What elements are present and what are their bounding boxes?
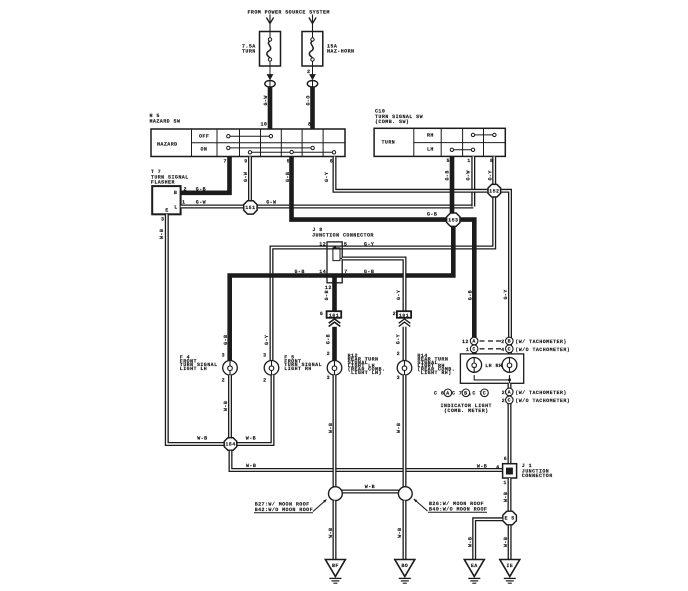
svg-text:6: 6 xyxy=(320,311,323,317)
F5 pin 2 xyxy=(263,377,266,383)
svg-text:LIGHT RH: LIGHT RH xyxy=(284,366,311,372)
meter internal ground wire xyxy=(474,375,511,383)
wire B26 splice to ground BO (W-B) xyxy=(397,501,404,560)
wire B27 splice to ground BF (W-B) xyxy=(328,501,334,560)
wire 184 to F5 ground (W-B) xyxy=(237,375,273,444)
svg-text:2: 2 xyxy=(502,398,505,404)
wire label G-B at front turn LH xyxy=(223,335,229,345)
svg-text:(W/ TACHOMETER): (W/ TACHOMETER) xyxy=(515,339,566,345)
turn SW pin 1 xyxy=(467,158,470,164)
wire flasher E to junction 184 (W-B) xyxy=(159,214,224,444)
hazard SW pin 6 xyxy=(330,159,333,165)
hazard SW pin 10 xyxy=(261,122,268,128)
svg-text:2: 2 xyxy=(327,351,330,357)
svg-text:7: 7 xyxy=(344,269,347,275)
wire label W-B left of 184 xyxy=(197,436,207,442)
svg-text:(COMB. METER): (COMB. METER) xyxy=(444,408,489,414)
junction 184 xyxy=(224,438,237,451)
svg-text:C: C xyxy=(483,390,486,396)
label w/o tachometer bottom xyxy=(515,398,570,404)
power feed arrow to fuse HAZ-HORN xyxy=(309,15,316,32)
svg-text:3: 3 xyxy=(397,375,400,381)
svg-text:RH: RH xyxy=(427,132,434,138)
junction connector J1 xyxy=(503,463,553,479)
svg-text:W-B: W-B xyxy=(397,528,403,538)
svg-text:B: B xyxy=(174,190,177,196)
connector arrows under 101 LH xyxy=(329,319,341,327)
wire fuse HAZ-HORN to hazard SW pin 8 (G-O) xyxy=(309,66,316,80)
svg-text:FLASHER: FLASHER xyxy=(151,179,175,185)
wire turn SW pin5 to junction 153 (G-B) xyxy=(445,156,453,213)
wire junction 153 to J8 and front turn LH (G-B) xyxy=(230,227,454,361)
turn SW pin 8 xyxy=(490,158,493,164)
svg-text:LIGHT RH): LIGHT RH) xyxy=(421,370,452,376)
svg-text:A: A xyxy=(508,390,511,396)
svg-text:G-O: G-O xyxy=(306,95,312,105)
pin 2 of fuse HAZ-HORN xyxy=(307,69,310,75)
svg-text:G-W: G-W xyxy=(266,200,276,206)
svg-text:BF: BF xyxy=(332,563,339,569)
net label FROM POWER SOURCE SYSTEM xyxy=(248,9,330,15)
meter pin 1 (w/o tach) xyxy=(466,347,469,353)
svg-text:HAZARD: HAZARD xyxy=(157,142,178,148)
svg-text:TURN: TURN xyxy=(382,140,396,146)
ground EA xyxy=(464,560,484,584)
svg-text:2: 2 xyxy=(307,69,310,75)
meter pin 2 (w/ tach) xyxy=(501,339,504,345)
svg-text:G-W: G-W xyxy=(196,200,206,206)
J8 pin 14 xyxy=(319,269,326,275)
svg-text:W-B: W-B xyxy=(159,229,165,239)
label w/o tachometer top xyxy=(515,347,570,353)
wire hazard pin9 to junction 151 (G-W) xyxy=(243,157,250,202)
wire label G-B left of J8 xyxy=(295,269,305,275)
flasher T7 box xyxy=(152,186,180,214)
meter pin circle C ground xyxy=(506,396,514,404)
dashed link w/ tach xyxy=(480,340,502,342)
svg-text:EA: EA xyxy=(471,563,478,569)
svg-text:G-B: G-B xyxy=(445,170,451,180)
wire label G-B left of junction 153 xyxy=(427,212,437,218)
J1 pin 4 xyxy=(496,464,499,470)
meter connector codes C6A C7B C7C xyxy=(434,389,488,397)
label w/ tachometer top xyxy=(515,339,566,345)
svg-text:2: 2 xyxy=(397,351,400,357)
svg-text:G-Y: G-Y xyxy=(324,172,330,182)
svg-text:G-B: G-B xyxy=(364,269,374,275)
svg-text:G-B: G-B xyxy=(223,335,229,345)
svg-text:W-B: W-B xyxy=(246,463,256,469)
svg-text:G-Y: G-Y xyxy=(364,241,374,247)
wire label G-Y at front turn RH xyxy=(264,335,270,345)
svg-text:14: 14 xyxy=(319,269,326,275)
svg-text:B42:W/O MOON ROOF: B42:W/O MOON ROOF xyxy=(255,507,313,513)
svg-text:G-B: G-B xyxy=(196,187,206,193)
svg-text:G-W: G-W xyxy=(466,170,472,180)
F5 pin 3 xyxy=(263,353,266,359)
flasher pin 3 label xyxy=(161,217,164,223)
svg-text:3: 3 xyxy=(327,375,330,381)
svg-text:BO: BO xyxy=(401,563,408,569)
hazard SW pin 9 xyxy=(244,159,247,165)
flasher pin 2 label xyxy=(184,187,187,193)
svg-text:2: 2 xyxy=(263,377,266,383)
svg-text:151: 151 xyxy=(245,205,255,211)
svg-text:A: A xyxy=(446,390,449,396)
wire J8 pin6 to rear turn RH (G-Y) xyxy=(342,259,404,312)
svg-text:101: 101 xyxy=(399,313,409,319)
svg-text:CONNECTOR: CONNECTOR xyxy=(522,473,553,479)
svg-text:JUNCTION CONNECTOR: JUNCTION CONNECTOR xyxy=(312,232,374,238)
svg-text:B: B xyxy=(464,390,467,396)
wire hazard pin5 to junction 153 (G-B) xyxy=(285,157,446,220)
meter pin 12 (w/ tach) xyxy=(462,339,469,345)
svg-text:G-B: G-B xyxy=(467,290,473,300)
svg-text:1: 1 xyxy=(466,347,469,353)
rear turn signal light RH R14 xyxy=(397,353,455,376)
svg-text:C: C xyxy=(508,398,511,404)
connector arrows under 101 RH xyxy=(399,319,411,327)
svg-text:(W/O TACHOMETER): (W/O TACHOMETER) xyxy=(515,347,570,353)
wire E5 to ground IE (W-B) xyxy=(503,525,510,559)
svg-text:OFF: OFF xyxy=(199,133,209,139)
svg-text:ON: ON xyxy=(201,147,208,153)
svg-text:(COMB. SW): (COMB. SW) xyxy=(375,119,409,125)
meter pin circle A left xyxy=(470,337,478,345)
dashed link w/o tach xyxy=(480,348,502,350)
svg-text:5: 5 xyxy=(344,241,347,247)
J8 pin 12 top xyxy=(319,241,326,247)
J1 pin 6 top xyxy=(504,456,507,462)
turn signal flasher T7 label xyxy=(151,169,189,185)
svg-text:E: E xyxy=(165,208,168,214)
svg-text:W-B: W-B xyxy=(477,464,487,470)
svg-text:L: L xyxy=(174,205,177,211)
svg-text:12: 12 xyxy=(462,339,469,345)
svg-text:G-B: G-B xyxy=(324,290,330,300)
meter pin 4 (w/o tach) xyxy=(501,347,504,353)
wire F4 ground to 184 (W-B) xyxy=(223,375,230,438)
connector oval on TURN feed xyxy=(265,81,275,88)
svg-text:HAZARD SW: HAZARD SW xyxy=(150,118,181,124)
svg-text:(W/O TACHOMETER): (W/O TACHOMETER) xyxy=(515,398,570,404)
wire fuse TURN to hazard SW pin 10 (G-W) xyxy=(267,66,274,80)
svg-text:3: 3 xyxy=(263,353,266,359)
wire rear turn RH ground (W-B) xyxy=(396,375,404,487)
svg-text:TURN: TURN xyxy=(242,48,256,54)
svg-text:W-B: W-B xyxy=(503,537,509,547)
meter pin circle C right xyxy=(506,345,514,353)
svg-text:6: 6 xyxy=(504,456,507,462)
wire turn SW pin8 to junction 152 (G-Y) xyxy=(488,156,495,184)
R12 pin 2 xyxy=(327,351,330,357)
label indicator light xyxy=(441,403,492,414)
hazard SW pin 7 xyxy=(224,159,227,165)
svg-text:W-B: W-B xyxy=(328,423,334,433)
svg-text:W-B: W-B xyxy=(396,423,402,433)
meter ground pin 2 (w/o tach) xyxy=(502,398,505,404)
wire label W-B right of 184 xyxy=(246,436,256,442)
wire junction 152 to meter RH indicator (G-Y) xyxy=(501,191,510,354)
wire junction 153 to meter LH indicator (G-B) xyxy=(460,220,474,354)
svg-text:C: C xyxy=(472,346,475,352)
wire 101 to rear turn LH bulb (G-B) xyxy=(326,327,335,361)
label w/ tachometer bottom xyxy=(515,390,566,396)
svg-text:G-Y: G-Y xyxy=(503,289,509,299)
flasher pin 1 label xyxy=(182,200,185,206)
svg-text:2: 2 xyxy=(502,390,505,396)
R12 pin 3 xyxy=(327,375,330,381)
wire flasher L to turn SW pin1 (G-W) xyxy=(181,156,474,206)
svg-text:8: 8 xyxy=(308,122,311,128)
ground BF xyxy=(325,560,345,584)
wire hazard pin7 to flasher B (G-B) xyxy=(181,157,230,193)
svg-text:A: A xyxy=(472,339,475,345)
junction 152 xyxy=(488,184,501,197)
svg-text:B40:W/O MOON ROOF: B40:W/O MOON ROOF xyxy=(429,506,487,512)
svg-text:W-B: W-B xyxy=(365,484,375,490)
ground IE xyxy=(500,560,520,584)
connector oval on HAZ-HORN feed xyxy=(307,81,317,88)
wire 184 to J1 pin 4 (W-B) xyxy=(231,451,503,470)
callout B26 moon roof xyxy=(414,499,488,512)
svg-text:G-W: G-W xyxy=(243,172,249,182)
svg-text:3: 3 xyxy=(161,217,164,223)
svg-text:2: 2 xyxy=(222,377,225,383)
R14 pin 3 xyxy=(397,375,400,381)
meter pin circle A ground xyxy=(506,388,514,396)
svg-text:101: 101 xyxy=(329,313,339,319)
turn indicator bulb LH xyxy=(467,358,482,373)
wire label G-B right of J8 xyxy=(364,269,374,275)
wire J1 to splice E5 (W-B) xyxy=(503,478,510,511)
turn indicator bulb RH xyxy=(502,358,517,373)
svg-text:5: 5 xyxy=(447,158,450,164)
J8 pin 5 xyxy=(344,241,347,247)
meter pin circle C left xyxy=(470,345,478,353)
J8 pin 7 xyxy=(344,269,347,275)
svg-text:C 7: C 7 xyxy=(452,391,462,397)
wire 101 to rear turn RH bulb (G-Y) xyxy=(396,327,405,361)
svg-text:G-B: G-B xyxy=(326,334,332,344)
svg-text:W-B: W-B xyxy=(246,436,256,442)
connector 101 (rear RH feed) pin 2 xyxy=(393,311,412,319)
wire label G-W at turn SW pin1 xyxy=(466,170,472,180)
svg-text:4: 4 xyxy=(496,464,499,470)
svg-text:152: 152 xyxy=(489,188,499,194)
wire TURN feed vertical xyxy=(263,87,270,129)
svg-text:7: 7 xyxy=(224,159,227,165)
svg-text:1: 1 xyxy=(467,158,470,164)
svg-text:W-B: W-B xyxy=(328,528,334,538)
front turn signal light LH F4 xyxy=(180,355,238,376)
svg-text:C 6: C 6 xyxy=(434,391,444,397)
svg-text:2: 2 xyxy=(501,339,504,345)
svg-text:LH RH: LH RH xyxy=(485,363,502,369)
fuse 15A HAZ-HORN xyxy=(302,32,354,67)
front turn signal light RH F5 xyxy=(264,355,322,376)
hazard SW pin 5 xyxy=(287,159,290,165)
J1 pin 1 bottom xyxy=(503,480,506,486)
svg-text:C: C xyxy=(508,346,511,352)
svg-text:E 5: E 5 xyxy=(504,516,514,522)
rear turn signal light LH R12 xyxy=(327,353,385,376)
svg-text:G-Y: G-Y xyxy=(488,170,494,180)
svg-text:LIGHT LH: LIGHT LH xyxy=(180,366,207,372)
svg-text:153: 153 xyxy=(448,217,458,223)
wire rear turn LH ground (W-B) xyxy=(328,375,334,487)
F4 pin 3 xyxy=(222,353,225,359)
svg-text:(W/ TACHOMETER): (W/ TACHOMETER) xyxy=(515,390,566,396)
label LH RH xyxy=(485,363,502,369)
svg-text:9: 9 xyxy=(244,159,247,165)
svg-text:4: 4 xyxy=(501,347,504,353)
wire splice bridge (W-B) xyxy=(342,484,399,492)
callout B27 moon roof xyxy=(254,500,327,513)
svg-text:12: 12 xyxy=(319,241,326,247)
svg-text:G-Y: G-Y xyxy=(264,335,270,345)
ground BO xyxy=(395,560,415,584)
meter pin circle B right xyxy=(506,337,514,345)
combination meter box xyxy=(460,354,523,383)
svg-text:W-B: W-B xyxy=(197,436,207,442)
svg-text:10: 10 xyxy=(261,122,268,128)
wire J8 pin12 to connector 101 (G-B) xyxy=(324,276,335,312)
wire hazard pin6 to junction 152 (G-Y) xyxy=(324,157,488,191)
svg-text:184: 184 xyxy=(225,442,235,448)
wire label G-Y at J8 xyxy=(364,241,374,247)
svg-text:G-B: G-B xyxy=(295,269,305,275)
svg-text:G-Y: G-Y xyxy=(396,290,402,300)
svg-text:G-B: G-B xyxy=(427,212,437,218)
svg-text:W-B: W-B xyxy=(468,537,474,547)
svg-text:LH: LH xyxy=(427,147,434,153)
svg-text:G-B: G-B xyxy=(285,172,291,182)
wire junction 152 to J8 and front turn RH (G-Y) xyxy=(272,197,495,361)
junction 153 xyxy=(447,213,460,226)
hazard SW pin 8 xyxy=(308,122,311,128)
wire E5 to ground EA (W-B) xyxy=(468,519,503,559)
svg-text:LIGHT LH): LIGHT LH) xyxy=(351,370,382,376)
J8 pin 12 bottom xyxy=(325,285,332,291)
splice B27/B42 xyxy=(329,487,343,501)
junction 151 xyxy=(244,201,257,214)
F4 pin 2 xyxy=(222,377,225,383)
junction connector J8 xyxy=(312,227,374,283)
svg-text:W-B: W-B xyxy=(223,401,229,411)
svg-text:B: B xyxy=(508,339,511,345)
R14 pin 2 xyxy=(397,351,400,357)
svg-text:3: 3 xyxy=(222,353,225,359)
connector 101 (rear LH feed) pin 6 xyxy=(320,311,341,319)
svg-text:G-W: G-W xyxy=(263,95,269,105)
wire meter ground to J1 (W-B) xyxy=(508,383,512,463)
svg-text:HAZ-HORN: HAZ-HORN xyxy=(327,48,354,54)
fuse 7.5A TURN xyxy=(242,32,281,67)
meter ground pin 2 (w/ tach) xyxy=(502,390,505,396)
J8 pin 6 xyxy=(344,256,347,262)
turn SW pin 5 xyxy=(447,158,450,164)
svg-text:G-Y: G-Y xyxy=(396,334,402,344)
wire HAZ feed vertical xyxy=(306,87,313,129)
svg-text:FROM POWER SOURCE SYSTEM: FROM POWER SOURCE SYSTEM xyxy=(248,9,330,15)
svg-text:12: 12 xyxy=(325,285,332,291)
svg-text:1: 1 xyxy=(503,480,506,486)
turn signal switch C10 xyxy=(374,109,505,157)
hazard switch H5 xyxy=(150,113,346,157)
power feed arrow to fuse TURN xyxy=(266,15,273,32)
splice E5 xyxy=(503,511,517,525)
svg-text:2: 2 xyxy=(393,311,396,317)
splice B26/B40 xyxy=(398,487,412,501)
svg-text:IE: IE xyxy=(506,563,513,569)
svg-text:W-B: W-B xyxy=(503,492,509,502)
